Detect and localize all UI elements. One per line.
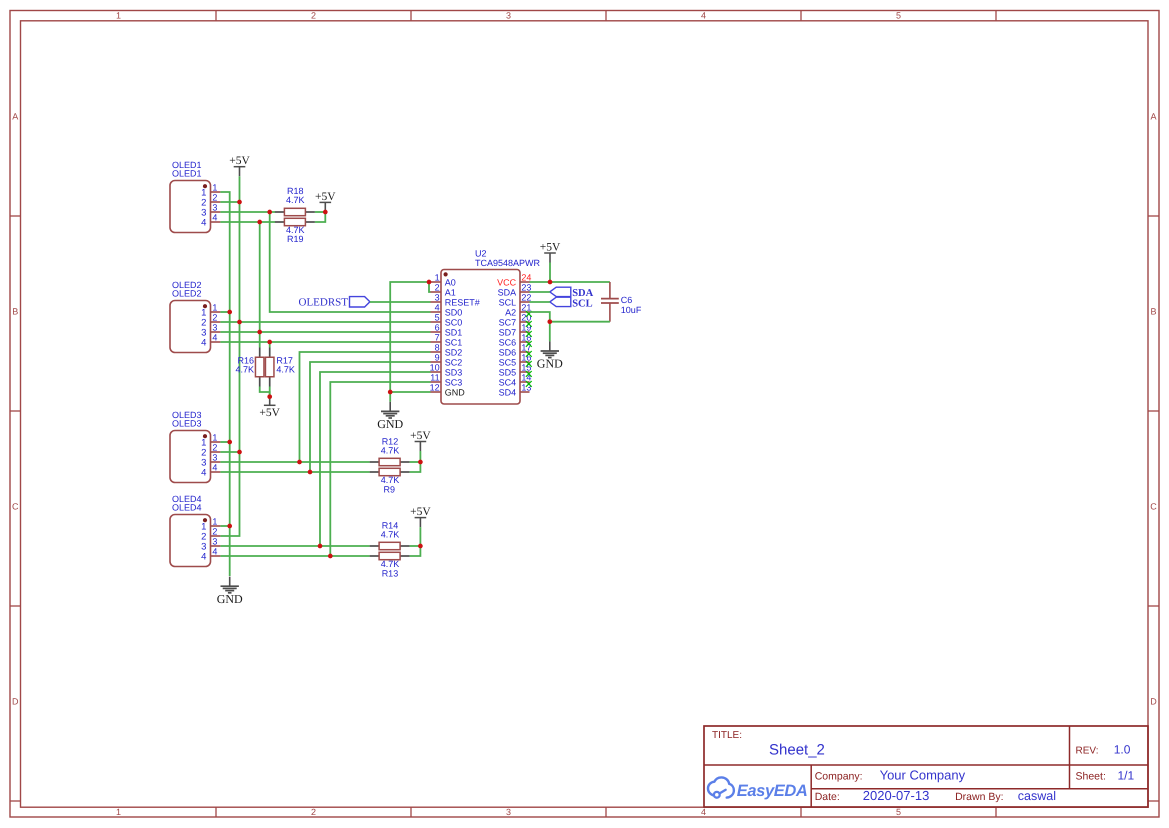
svg-text:SCL: SCL: [499, 297, 517, 307]
wire U2 VCC to C6 top: [530, 281, 610, 283]
resistor R13: [370, 552, 410, 559]
ruler ticks right: [1148, 216, 1159, 801]
svg-text:VCC: VCC: [497, 277, 517, 287]
wire OLED3 pin4 to R9: [220, 471, 369, 473]
wire U2 A1 tie to A0: [429, 282, 431, 292]
svg-text:R13: R13: [382, 568, 399, 578]
svg-text:5: 5: [896, 11, 901, 21]
svg-text:GND: GND: [445, 387, 466, 397]
power +5V below R16 R17: [259, 397, 280, 419]
net flag SCL: [550, 297, 593, 309]
svg-text:OLED4: OLED4: [172, 503, 202, 513]
svg-text:OLED2: OLED2: [172, 289, 202, 299]
wire R16 bottom to +5V node: [260, 387, 270, 397]
svg-text:SC0: SC0: [445, 317, 463, 327]
svg-text:4: 4: [201, 218, 206, 229]
connector OLED2: [170, 280, 220, 352]
svg-text:SC4: SC4: [499, 377, 517, 387]
svg-text:D: D: [12, 697, 19, 707]
ruler labels top: [116, 11, 901, 21]
power +5V above U2 VCC: [540, 241, 561, 262]
svg-text:2: 2: [435, 282, 440, 292]
svg-text:4: 4: [201, 552, 206, 563]
svg-text:4: 4: [212, 546, 217, 556]
wire OLED1 pin4 to R19: [220, 221, 275, 223]
svg-text:SC7: SC7: [499, 317, 517, 327]
wire U2 SC2 to OLED3 pin4: [310, 362, 431, 472]
svg-text:2: 2: [311, 807, 316, 817]
wire U2 SD2 to OLED3 pin3: [300, 352, 431, 462]
svg-text:1: 1: [212, 302, 217, 312]
svg-text:2: 2: [212, 526, 217, 536]
svg-text:A: A: [12, 112, 18, 122]
wire R19 to +5V node: [315, 212, 325, 222]
svg-text:RESET#: RESET#: [445, 297, 480, 307]
junction SC3 OLED4 pin4: [328, 554, 333, 559]
junction OLED2 pin4: [267, 340, 272, 345]
svg-text:SD1: SD1: [445, 327, 463, 337]
svg-text:SC5: SC5: [499, 357, 517, 367]
wire OLED2 pin2 to U2 SC0: [220, 321, 430, 323]
svg-text:OLED1: OLED1: [172, 169, 202, 179]
svg-text:11: 11: [430, 372, 439, 382]
wire R14 to +5V: [410, 545, 421, 547]
op-amp U2 TCA9548APWR body: [441, 270, 520, 405]
svg-text:4.7K: 4.7K: [286, 195, 305, 205]
svg-text:U2: U2: [475, 249, 487, 259]
svg-text:+5V: +5V: [229, 155, 250, 167]
U2 no-connect marks pins 13-20: [526, 311, 532, 387]
svg-text:23: 23: [521, 282, 531, 292]
svg-text:Sheet_2: Sheet_2: [769, 742, 825, 759]
svg-text:1: 1: [435, 272, 440, 282]
junction R14 +5V node: [418, 544, 423, 549]
connector OLED3: [170, 410, 220, 482]
wire R12 to +5V: [410, 461, 421, 463]
svg-text:4: 4: [212, 212, 217, 222]
wire U2 A0 to GND vertical: [390, 282, 430, 392]
wire OLED4 pin3 to R14: [220, 545, 369, 547]
power +5V right of R12: [410, 430, 431, 451]
U2 left pins 1-12: [430, 272, 480, 397]
resistor R17: [265, 348, 274, 387]
svg-text:24: 24: [521, 272, 531, 282]
svg-text:SD0: SD0: [445, 307, 463, 317]
svg-text:9: 9: [435, 352, 440, 362]
svg-text:C: C: [12, 502, 19, 512]
power +5V above OLED1: [229, 155, 250, 176]
svg-text:4.7K: 4.7K: [381, 445, 400, 455]
svg-text:8: 8: [435, 342, 440, 352]
svg-text:3: 3: [212, 452, 217, 462]
resistor R19: [275, 218, 315, 225]
junction A2 C6 GND: [547, 319, 552, 324]
svg-text:2: 2: [212, 312, 217, 322]
svg-text:3: 3: [212, 322, 217, 332]
svg-text:4.7K: 4.7K: [235, 365, 254, 375]
svg-text:1: 1: [116, 807, 121, 817]
junction OLED3 pin1: [227, 440, 232, 445]
svg-text:A: A: [1150, 112, 1156, 122]
svg-text:Drawn By:: Drawn By:: [955, 791, 1003, 803]
svg-text:4: 4: [201, 338, 206, 349]
wire OLED2 pin4 to U2 SC1: [220, 341, 430, 343]
wire R13 to +5V node: [410, 546, 421, 556]
svg-text:OLEDRST: OLEDRST: [299, 296, 349, 308]
svg-text:SD7: SD7: [499, 327, 517, 337]
svg-text:SD6: SD6: [499, 347, 517, 357]
junction OLED2 pin3: [257, 330, 262, 335]
power +5V right of R14: [410, 506, 431, 527]
logo EasyEDA cloud: [708, 777, 734, 797]
power +5V right of R18: [315, 191, 336, 212]
wire U2 SC3 to OLED4 pin4: [330, 382, 430, 556]
svg-text:4: 4: [701, 807, 706, 817]
junction OLED2 pin1: [227, 310, 232, 315]
wire U2 SCL to flag: [530, 301, 550, 303]
connector OLED1: [170, 160, 220, 232]
svg-text:A2: A2: [505, 307, 516, 317]
svg-text:4: 4: [201, 468, 206, 479]
wire U2 GND pin: [390, 391, 430, 393]
wire OLED2 pin4 down to R17: [269, 342, 271, 348]
wire OLED3 pin3 to R12: [220, 461, 369, 463]
svg-text:+5V: +5V: [540, 241, 561, 253]
svg-text:12: 12: [430, 382, 440, 392]
wire OLED4 pin4 to R13: [220, 555, 369, 557]
svg-text:R9: R9: [384, 484, 396, 494]
wire OLED2 pin1 branch: [220, 311, 229, 313]
svg-text:SC2: SC2: [445, 357, 463, 367]
resistor R9: [370, 468, 410, 475]
svg-text:1: 1: [212, 182, 217, 192]
svg-text:caswal: caswal: [1018, 789, 1056, 803]
svg-text:B: B: [12, 307, 18, 317]
svg-text:7: 7: [435, 332, 440, 342]
svg-text:3: 3: [506, 11, 511, 21]
svg-text:4: 4: [212, 462, 217, 472]
connector OLED4: [170, 494, 220, 566]
svg-text:SD4: SD4: [499, 387, 517, 397]
wire +5V rail down to OLED4 pin2: [220, 176, 239, 536]
svg-text:1/1: 1/1: [1118, 769, 1135, 783]
svg-text:3: 3: [435, 292, 440, 302]
capacitor C6: [601, 282, 619, 322]
svg-text:6: 6: [435, 322, 440, 332]
junction OLED2 pin2 +5V rail: [237, 320, 242, 325]
svg-text:Sheet:: Sheet:: [1076, 771, 1106, 783]
svg-text:A0: A0: [445, 277, 456, 287]
wire OLED1 pin1 down chain to GND: [220, 192, 229, 576]
ground GND below U2: [377, 392, 403, 431]
ruler labels right: [1150, 112, 1157, 707]
svg-text:4: 4: [212, 332, 217, 342]
svg-text:5: 5: [896, 807, 901, 817]
title block frame: [704, 726, 1148, 807]
svg-text:2: 2: [212, 192, 217, 202]
svg-text:C: C: [1150, 502, 1157, 512]
wire U2 SD3 to OLED4 pin3: [320, 372, 431, 546]
net flag OLEDRST: [299, 296, 370, 308]
resistor R16: [255, 348, 264, 387]
resistor R18: [275, 208, 315, 215]
svg-text:+5V: +5V: [259, 407, 280, 419]
junction SC2 OLED3 pin4: [308, 470, 313, 475]
junction U2 GND node: [388, 390, 393, 395]
wire U2 SDA to flag: [530, 291, 550, 293]
svg-text:2: 2: [212, 442, 217, 452]
ruler ticks bottom: [216, 807, 996, 817]
wire OLED1 pin4 down through OLED2 pin3 to R16: [259, 222, 261, 348]
junction OLED4 pin1: [227, 524, 232, 529]
svg-text:A1: A1: [445, 287, 456, 297]
wire OLED3 pin1 branch: [220, 441, 229, 443]
svg-text:SC6: SC6: [499, 337, 517, 347]
svg-text:3: 3: [212, 536, 217, 546]
wire OLEDRST to U2 RESET#: [370, 301, 431, 303]
svg-text:4.7K: 4.7K: [276, 365, 295, 375]
junction R18 +5V node: [323, 210, 328, 215]
svg-text:Date:: Date:: [815, 791, 840, 803]
svg-text:3: 3: [506, 807, 511, 817]
svg-text:2: 2: [311, 11, 316, 21]
svg-text:4: 4: [435, 302, 440, 312]
wire OLED1 pin2 branch: [220, 201, 239, 203]
svg-text:B: B: [1150, 307, 1156, 317]
svg-text:2020-07-13: 2020-07-13: [863, 788, 930, 803]
ruler ticks left: [10, 216, 21, 801]
svg-text:4.7K: 4.7K: [381, 529, 400, 539]
wire OLED4 pin1 branch: [220, 525, 229, 527]
svg-text:GND: GND: [217, 592, 243, 606]
svg-text:SD5: SD5: [499, 367, 517, 377]
svg-text:Your Company: Your Company: [880, 768, 966, 783]
svg-text:+5V: +5V: [410, 430, 431, 442]
junction U2 A0 A1: [427, 280, 432, 285]
svg-text:22: 22: [521, 292, 531, 302]
svg-text:TCA9548APWR: TCA9548APWR: [475, 258, 541, 268]
svg-text:SCL: SCL: [572, 298, 592, 309]
svg-text:1.0: 1.0: [1114, 742, 1131, 756]
svg-text:SC1: SC1: [445, 337, 463, 347]
svg-text:10: 10: [430, 362, 440, 372]
junction SD3 OLED4 pin3: [318, 544, 323, 549]
junction R16 R17 +5V node: [267, 394, 272, 399]
wire OLED3 pin2 branch: [220, 451, 239, 453]
ground GND below OLED4: [217, 577, 243, 606]
resistor R14: [370, 542, 410, 549]
svg-text:13: 13: [521, 382, 531, 392]
wire R17 bottom to +5V node: [269, 387, 271, 397]
junction SD2 OLED3 pin3: [297, 460, 302, 465]
svg-text:EasyEDA: EasyEDA: [737, 782, 808, 800]
resistor R12: [370, 458, 410, 465]
wire R9 to +5V node: [410, 462, 421, 472]
svg-text:4: 4: [701, 11, 706, 21]
svg-text:5: 5: [435, 312, 440, 322]
U2 right pins 24-13: [497, 272, 531, 397]
ruler labels left: [12, 112, 19, 707]
junction OLED3 pin2: [237, 450, 242, 455]
ruler ticks top: [216, 11, 996, 21]
wire R18 to +5V: [315, 211, 325, 213]
svg-text:SC3: SC3: [445, 377, 463, 387]
svg-text:1: 1: [212, 432, 217, 442]
ground GND right of U2: [537, 322, 563, 371]
svg-text:1: 1: [116, 11, 121, 21]
svg-text:Company:: Company:: [815, 771, 863, 783]
junction R12 +5V node: [418, 460, 423, 465]
svg-text:C6: C6: [621, 295, 633, 305]
junction VCC +5V: [548, 280, 553, 285]
svg-text:10uF: 10uF: [621, 305, 642, 315]
wire C6 bottom to GND node: [550, 321, 610, 323]
svg-text:SD3: SD3: [445, 367, 463, 377]
ruler labels bottom: [116, 807, 901, 817]
wire OLED2 pin3 to U2 SD1: [220, 331, 430, 333]
junction OLED1 pin3: [267, 210, 272, 215]
svg-text:REV:: REV:: [1076, 745, 1099, 756]
svg-text:GND: GND: [377, 417, 403, 431]
net flag SDA: [550, 287, 594, 299]
svg-text:OLED3: OLED3: [172, 419, 202, 429]
svg-text:TITLE:: TITLE:: [712, 730, 742, 741]
svg-text:+5V: +5V: [315, 191, 336, 203]
svg-text:GND: GND: [537, 357, 563, 371]
svg-text:SDA: SDA: [498, 287, 517, 297]
wire U2 A2 to GND node: [530, 312, 550, 322]
svg-text:SD2: SD2: [445, 347, 463, 357]
svg-text:R19: R19: [287, 234, 304, 244]
svg-text:3: 3: [212, 202, 217, 212]
svg-text:D: D: [1150, 697, 1157, 707]
wire OLED1 pin3 to R18: [220, 211, 275, 213]
junction OLED1 pin4: [257, 220, 262, 225]
junction OLED1 pin2: [237, 200, 242, 205]
svg-text:1: 1: [212, 516, 217, 526]
svg-text:+5V: +5V: [410, 506, 431, 518]
wire OLED1 pin3 down to U2 SD0: [270, 212, 431, 312]
